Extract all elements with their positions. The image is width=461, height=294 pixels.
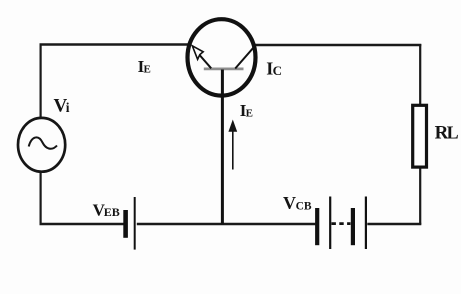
battery VCB cell 1: long thin plate: [329, 197, 331, 250]
svg-text:E: E: [144, 64, 151, 76]
transistor Q1 emitter arrowhead (hollow, pointing out to upper-left): [192, 46, 203, 60]
svg-text:i: i: [66, 100, 70, 115]
label IC (collector current, right of transistor): [266, 58, 282, 78]
battery VCB cell 2: short thick plate: [351, 208, 355, 245]
label IE (emitter current, top left of transistor): [138, 57, 151, 76]
svg-text:EB: EB: [104, 205, 120, 219]
label VEB: [93, 201, 120, 220]
label IE (base lead current, beside arrow): [240, 101, 253, 120]
label Vi: [54, 96, 70, 117]
wire: top-right horizontal (transistor collector terminal to RL): [255, 44, 422, 46]
svg-text:E: E: [246, 108, 253, 120]
transistor Q1 collector line: [235, 45, 255, 68]
wire: right vertical upper (top wire down to RL): [419, 44, 421, 106]
transistor Q1 body circle: [188, 19, 256, 95]
AC source Vi (circle with sine): [18, 118, 65, 172]
transistor Q1 base lead (vertical down to bottom wire): [221, 70, 224, 225]
svg-text:L: L: [447, 122, 459, 142]
svg-text:CB: CB: [296, 200, 312, 212]
wire: left vertical upper (top wire down to Vi source): [39, 44, 41, 119]
label VCB: [283, 193, 312, 213]
battery VEB: long thin plate (right): [134, 197, 136, 250]
battery VCB cell 2: long thin plate: [365, 197, 367, 250]
wire: right vertical lower (RL down to bottom wire): [419, 167, 421, 225]
battery VCB cell 1: short thick plate: [315, 208, 319, 245]
transistor Q1 base bar: [204, 68, 244, 71]
battery VEB: short thick plate (left): [123, 210, 128, 238]
wire: bottom-middle horizontal (VEB battery to VCB battery, junction with base lead): [137, 223, 316, 226]
wire: bottom-left horizontal (to VEB battery): [40, 223, 124, 226]
dashed link between VCB cells: [332, 222, 351, 225]
wire: left vertical lower (Vi source down to bottom wire): [39, 171, 41, 225]
wire: bottom-right horizontal (VCB battery to right corner): [367, 223, 421, 226]
svg-text:C: C: [273, 63, 282, 78]
svg-text:V: V: [283, 193, 296, 213]
transistor Q1 emitter line: [197, 52, 212, 69]
arrow: IE current direction (vertical, pointing up): [228, 120, 237, 170]
resistor RL: [413, 105, 427, 167]
wire: top-left horizontal (source to transistor emitter terminal): [40, 43, 190, 45]
